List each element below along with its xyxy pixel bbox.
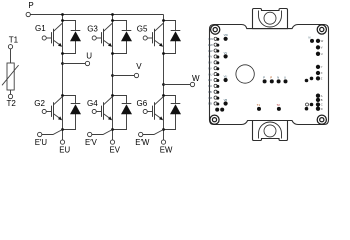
svg-text:X: X	[321, 71, 323, 75]
svg-text:G4: G4	[87, 99, 98, 108]
svg-text:P: P	[28, 1, 33, 10]
svg-text:G1: G1	[35, 24, 46, 33]
svg-text:VW: VW	[224, 33, 229, 37]
svg-text:GB: GB	[208, 96, 212, 100]
svg-text:U: U	[321, 52, 323, 56]
svg-text:EW: EW	[160, 146, 173, 155]
svg-text:V: V	[136, 62, 142, 71]
svg-text:E′V: E′V	[85, 138, 98, 147]
svg-text:FU: FU	[208, 84, 212, 88]
svg-text:FW: FW	[208, 49, 213, 53]
svg-text:N: N	[277, 75, 279, 79]
svg-text:B: B	[321, 98, 323, 102]
svg-text:V: V	[321, 46, 323, 50]
svg-text:P: P	[263, 75, 265, 79]
svg-text:A: A	[321, 94, 323, 98]
svg-text:GV: GV	[208, 55, 212, 59]
svg-text:P: P	[270, 75, 272, 79]
svg-text:G6: G6	[137, 99, 148, 108]
svg-text:G5: G5	[137, 24, 148, 33]
svg-text:FB: FB	[208, 90, 212, 94]
svg-text:EW: EW	[208, 43, 213, 47]
svg-text:T2: T2	[7, 99, 17, 108]
svg-text:EV: EV	[110, 146, 121, 155]
svg-text:U: U	[86, 51, 92, 60]
svg-text:G3: G3	[87, 24, 98, 33]
svg-text:FV: FV	[208, 66, 212, 70]
svg-text:D: D	[321, 107, 323, 111]
svg-text:VV: VV	[224, 51, 228, 55]
svg-text:EB: EB	[208, 102, 212, 106]
svg-text:C: C	[321, 103, 323, 107]
svg-text:E′W: E′W	[135, 138, 150, 147]
svg-text:EV: EV	[208, 61, 212, 65]
svg-text:T1: T1	[9, 36, 19, 45]
svg-text:T2: T2	[277, 103, 281, 107]
svg-text:Y: Y	[321, 65, 323, 69]
svg-text:GU: GU	[208, 72, 212, 76]
svg-text:U: U	[284, 75, 286, 79]
svg-text:T1: T1	[257, 103, 261, 107]
svg-text:G2: G2	[34, 99, 45, 108]
svg-text:E′U: E′U	[35, 138, 48, 147]
svg-text:N: N	[309, 35, 311, 39]
svg-text:EU: EU	[208, 78, 212, 82]
svg-text:EU: EU	[59, 146, 70, 155]
svg-text:VU: VU	[224, 74, 228, 78]
svg-text:W: W	[192, 74, 200, 83]
svg-text:GW: GW	[208, 37, 213, 41]
svg-text:VB: VB	[224, 98, 228, 102]
